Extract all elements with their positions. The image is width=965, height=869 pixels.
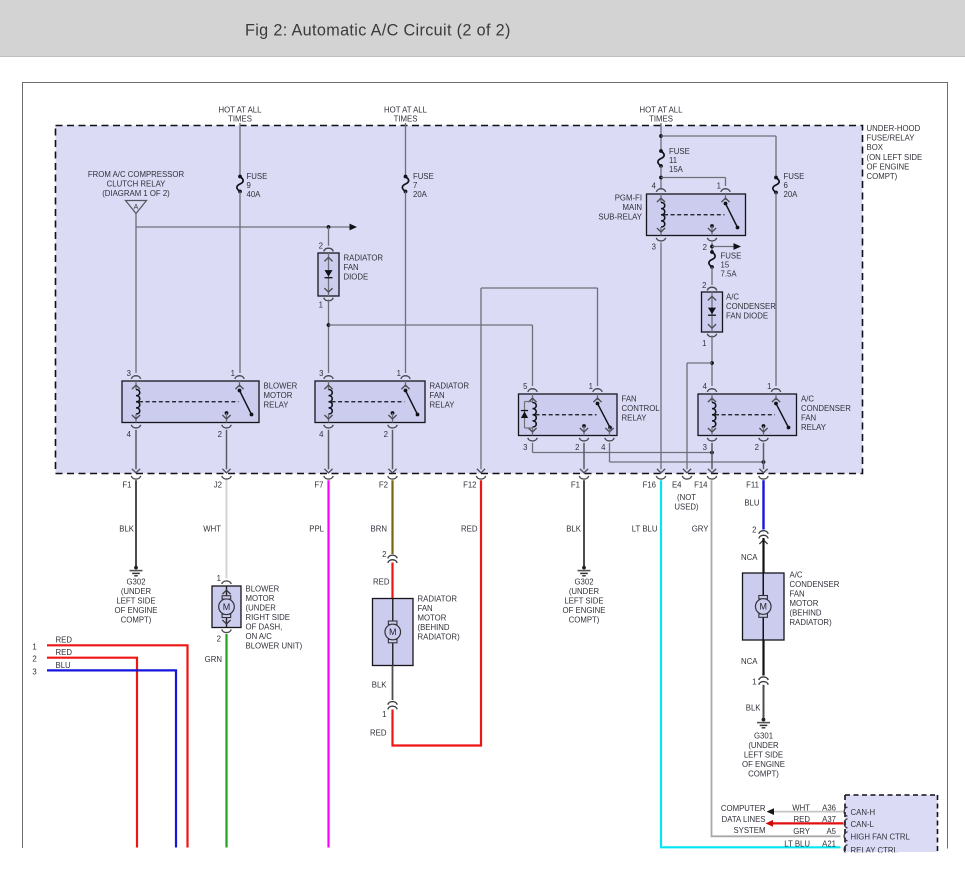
svg-text:F14: F14 [694,481,708,490]
svg-text:MOTOR: MOTOR [264,391,293,400]
svg-text:FAN: FAN [430,391,445,400]
svg-text:A: A [134,204,139,211]
svg-text:BLOWER: BLOWER [264,382,298,391]
svg-text:SYSTEM: SYSTEM [733,826,765,835]
svg-text:1: 1 [767,382,771,391]
svg-text:OF ENGINE: OF ENGINE [867,162,910,171]
svg-text:BRN: BRN [371,525,387,534]
svg-text:F12: F12 [463,481,476,490]
svg-text:(NOT: (NOT [677,493,696,502]
svg-text:OF ENGINE: OF ENGINE [115,606,158,615]
svg-text:OF DASH,: OF DASH, [246,623,283,632]
svg-text:BLK: BLK [372,681,388,690]
svg-text:4: 4 [127,430,132,439]
svg-text:FAN: FAN [344,263,359,272]
svg-text:BLK: BLK [566,525,582,534]
svg-text:RED: RED [370,729,387,738]
svg-text:COMPT): COMPT) [569,616,600,625]
svg-text:M: M [389,627,397,637]
svg-text:(UNDER: (UNDER [246,604,277,613]
svg-text:PGM-FI: PGM-FI [615,194,642,203]
svg-text:3: 3 [523,443,527,452]
svg-text:F7: F7 [314,481,323,490]
svg-text:3: 3 [32,668,36,677]
svg-text:BLOWER: BLOWER [246,585,280,594]
svg-text:(UNDER: (UNDER [748,741,779,750]
svg-text:RED: RED [461,525,478,534]
svg-text:Fig 2: Automatic A/C Circuit (: Fig 2: Automatic A/C Circuit (2 of 2) [245,22,511,40]
svg-text:(ON LEFT SIDE: (ON LEFT SIDE [867,153,923,162]
svg-text:RIGHT SIDE: RIGHT SIDE [246,613,290,622]
svg-text:A/C: A/C [790,571,803,580]
svg-text:15A: 15A [669,165,684,174]
svg-text:1: 1 [717,182,721,191]
svg-text:MOTOR: MOTOR [790,599,819,608]
svg-text:J2: J2 [214,481,222,490]
svg-text:A36: A36 [822,804,836,813]
svg-text:RED: RED [794,815,811,824]
svg-text:2: 2 [319,242,323,251]
svg-text:FAN: FAN [801,414,816,423]
svg-text:MOTOR: MOTOR [246,594,275,603]
svg-text:RED: RED [56,648,73,657]
svg-text:CONDENSER: CONDENSER [726,302,776,311]
svg-text:M: M [760,602,768,612]
svg-text:RELAY: RELAY [622,414,648,423]
svg-text:RADIATOR: RADIATOR [344,254,384,263]
svg-text:HOT AT ALL: HOT AT ALL [640,105,684,114]
svg-text:20A: 20A [413,190,428,199]
svg-text:BLK: BLK [119,525,135,534]
svg-text:7: 7 [413,181,417,190]
svg-text:20A: 20A [784,190,799,199]
svg-text:FAN DIODE: FAN DIODE [726,312,768,321]
svg-text:A21: A21 [822,840,836,849]
svg-text:DATA LINES: DATA LINES [722,815,766,824]
svg-text:RADIATOR: RADIATOR [430,382,470,391]
svg-text:4: 4 [319,430,324,439]
svg-text:2: 2 [755,443,759,452]
svg-text:5: 5 [523,382,528,391]
svg-text:1: 1 [231,369,235,378]
svg-text:LEFT SIDE: LEFT SIDE [564,597,603,606]
svg-text:1: 1 [32,643,36,652]
svg-text:3: 3 [319,369,323,378]
svg-text:CAN-H: CAN-H [851,808,876,817]
svg-text:FUSE: FUSE [247,172,268,181]
svg-text:MAIN: MAIN [623,203,643,212]
svg-text:UNDER-HOOD: UNDER-HOOD [867,124,921,133]
svg-text:40A: 40A [247,190,262,199]
svg-text:3: 3 [127,369,131,378]
svg-text:LT BLU: LT BLU [632,525,658,534]
svg-text:2: 2 [752,526,756,535]
svg-text:GRY: GRY [692,525,710,534]
svg-text:2: 2 [382,550,386,559]
svg-text:RADIATOR): RADIATOR) [790,618,833,627]
svg-text:LT BLU: LT BLU [784,840,810,849]
svg-text:1: 1 [382,710,386,719]
svg-text:TIMES: TIMES [649,114,673,123]
svg-text:11: 11 [669,156,677,165]
svg-text:1: 1 [217,574,221,583]
svg-text:1: 1 [397,369,401,378]
svg-text:F1: F1 [122,481,131,490]
svg-text:1: 1 [752,678,756,687]
svg-text:A37: A37 [822,815,836,824]
svg-text:RED: RED [373,578,390,587]
svg-text:GRY: GRY [793,827,811,836]
svg-text:TIMES: TIMES [394,114,418,123]
svg-text:WHT: WHT [792,804,810,813]
svg-text:(BEHIND: (BEHIND [418,623,450,632]
svg-text:2: 2 [575,443,579,452]
svg-text:F2: F2 [379,481,388,490]
svg-text:FUSE: FUSE [669,147,690,156]
svg-text:RELAY: RELAY [264,401,290,410]
svg-text:1: 1 [589,382,593,391]
svg-text:COMPT): COMPT) [748,770,779,779]
svg-text:FAN: FAN [418,604,433,613]
svg-text:F16: F16 [643,481,656,490]
svg-text:2: 2 [702,281,706,290]
svg-text:1: 1 [702,339,706,348]
svg-text:E4: E4 [672,481,682,490]
svg-text:WHT: WHT [203,525,221,534]
svg-text:ON A/C: ON A/C [246,632,273,641]
svg-text:USED): USED) [674,503,699,512]
svg-text:BLU: BLU [744,499,760,508]
svg-text:GRN: GRN [205,655,222,664]
svg-text:A/C: A/C [801,395,814,404]
svg-text:FAN: FAN [790,590,805,599]
svg-text:9: 9 [247,181,251,190]
svg-text:RADIATOR): RADIATOR) [418,633,461,642]
svg-text:FUSE: FUSE [721,252,742,261]
svg-text:PPL: PPL [309,525,324,534]
svg-text:2: 2 [384,430,388,439]
svg-text:FUSE/RELAY: FUSE/RELAY [867,134,916,143]
svg-text:F11: F11 [746,481,759,490]
svg-text:15: 15 [721,261,730,270]
svg-text:A/C: A/C [726,293,739,302]
svg-text:3: 3 [652,243,656,252]
svg-text:FUSE: FUSE [413,172,434,181]
svg-text:2: 2 [217,635,221,644]
svg-text:RED: RED [56,636,73,645]
svg-text:G302: G302 [574,578,593,587]
svg-text:FROM A/C COMPRESSOR: FROM A/C COMPRESSOR [88,170,185,179]
svg-text:HOT AT ALL: HOT AT ALL [384,105,428,114]
svg-text:(UNDER: (UNDER [569,587,600,596]
svg-text:1: 1 [319,301,323,310]
svg-text:7.5A: 7.5A [721,270,738,279]
svg-text:3: 3 [703,443,707,452]
svg-text:RELAY: RELAY [430,401,456,410]
svg-text:M: M [223,602,231,612]
svg-text:G301: G301 [754,732,773,741]
svg-text:4: 4 [652,182,657,191]
svg-text:G302: G302 [126,578,145,587]
svg-text:CONDENSER: CONDENSER [790,580,840,589]
svg-text:CAN-L: CAN-L [851,820,875,829]
svg-text:RELAY: RELAY [801,423,827,432]
svg-text:COMPT): COMPT) [867,172,898,181]
svg-text:FUSE: FUSE [784,172,805,181]
svg-text:BLK: BLK [746,704,762,713]
svg-text:OF ENGINE: OF ENGINE [563,606,606,615]
svg-text:4: 4 [703,382,708,391]
svg-text:(UNDER: (UNDER [121,587,152,596]
svg-text:RADIATOR: RADIATOR [418,595,458,604]
svg-text:HOT AT ALL: HOT AT ALL [219,105,263,114]
svg-text:(DIAGRAM 1 OF 2): (DIAGRAM 1 OF 2) [102,189,170,198]
svg-text:DIODE: DIODE [344,273,369,282]
svg-text:CONTROL: CONTROL [622,404,661,413]
svg-text:(BEHIND: (BEHIND [790,609,822,618]
svg-text:LEFT SIDE: LEFT SIDE [744,751,783,760]
svg-text:4: 4 [601,443,606,452]
svg-text:FAN: FAN [622,395,637,404]
svg-text:2: 2 [32,655,36,664]
svg-text:2: 2 [703,243,707,252]
svg-text:COMPT): COMPT) [121,616,152,625]
svg-text:A5: A5 [826,827,836,836]
svg-text:LEFT SIDE: LEFT SIDE [116,597,155,606]
svg-text:MOTOR: MOTOR [418,614,447,623]
svg-text:CONDENSER: CONDENSER [801,404,851,413]
svg-text:2: 2 [218,430,222,439]
svg-text:SUB-RELAY: SUB-RELAY [598,213,642,222]
svg-text:BLU: BLU [56,661,72,670]
svg-text:TIMES: TIMES [228,114,252,123]
svg-text:OF ENGINE: OF ENGINE [742,760,785,769]
svg-text:COMPUTER: COMPUTER [721,804,766,813]
svg-text:CLUTCH RELAY: CLUTCH RELAY [107,180,167,189]
svg-text:NCA: NCA [741,553,758,562]
svg-text:BLOWER UNIT): BLOWER UNIT) [246,642,303,651]
svg-text:HIGH FAN CTRL: HIGH FAN CTRL [851,833,911,842]
svg-text:NCA: NCA [741,657,758,666]
svg-text:6: 6 [784,181,788,190]
svg-text:F1: F1 [571,481,580,490]
svg-text:BOX: BOX [867,143,884,152]
